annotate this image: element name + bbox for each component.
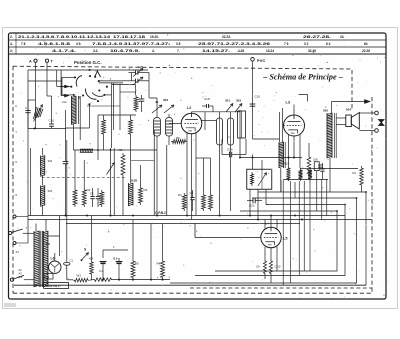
svg-text:.50: .50	[256, 265, 260, 269]
resistor R7	[90, 260, 94, 276]
tube L5	[261, 227, 281, 247]
svg-text:R3: R3	[144, 188, 148, 192]
resistor R8	[121, 153, 125, 177]
svg-text:.4.28: .4.28	[237, 49, 244, 53]
capacitor C15	[139, 98, 145, 100]
wire mid horizontals	[87, 105, 120, 107]
svg-text:S: S	[84, 248, 86, 252]
bus B plus	[28, 219, 372, 221]
svg-text:301: 301	[225, 99, 230, 103]
resistor R18	[299, 168, 303, 181]
wire top bus	[28, 69, 148, 71]
svg-text:C: C	[25, 106, 27, 110]
main bottom bus	[14, 284, 366, 286]
resistor R19	[308, 168, 312, 181]
svg-text:2.: 2.	[10, 35, 13, 39]
svg-text:L4: L4	[266, 222, 270, 226]
svg-text:318: 318	[313, 158, 318, 162]
resistor R5	[131, 259, 135, 280]
wire left rail	[27, 70, 29, 216]
svg-text:14.15.27.: 14.15.27.	[202, 49, 230, 53]
horizontal coil segment	[80, 148, 93, 150]
wire antenna loop	[28, 99, 35, 101]
phono terminal lower	[13, 242, 16, 245]
wire rotary right lower	[104, 94, 111, 96]
page edge shadow bottom-left	[4, 303, 16, 307]
wire rotary twin pair right	[99, 80, 123, 82]
svg-text:3.2.: 3.2.	[93, 49, 98, 53]
wire L2 grid	[169, 123, 181, 125]
wire grid row	[98, 114, 136, 116]
svg-text:C10: C10	[255, 95, 261, 99]
power transformer primary	[33, 231, 35, 287]
wire x65 column	[65, 110, 67, 161]
tuning coil L-B	[166, 118, 173, 137]
svg-text:4.1.7.4.: 4.1.7.4.	[52, 49, 76, 53]
scan speckles	[133, 70, 134, 71]
rotary band switch S1 wiper	[95, 71, 101, 77]
parts table grid	[9, 39, 387, 41]
wire IF box leads	[249, 189, 251, 215]
rotary switch arc section 1	[76, 76, 82, 87]
svg-text:– Schéma de Principe –: – Schéma de Principe –	[262, 73, 343, 82]
svg-text:302: 302	[48, 159, 53, 163]
capacitor 318	[314, 162, 319, 171]
terminal PVC	[251, 58, 255, 62]
nested loop B	[170, 198, 357, 283]
svg-text:505: 505	[323, 109, 328, 113]
wire coil leads	[156, 136, 158, 216]
svg-text:26.27.28.: 26.27.28.	[303, 35, 331, 39]
svg-text:C18: C18	[204, 97, 210, 101]
svg-text:22.26: 22.26	[362, 49, 370, 53]
bus AVC	[66, 223, 300, 225]
wire loop A left	[280, 180, 282, 192]
wire L5 cathode pins	[264, 247, 266, 259]
wire L5 grid riser	[194, 224, 196, 238]
svg-text:504: 504	[346, 108, 351, 112]
wire L5 heaters	[264, 220, 266, 229]
svg-text:303: 303	[236, 99, 241, 103]
IF transformer T2	[247, 169, 272, 189]
resistor R20 right column	[307, 155, 311, 176]
capacitor C13	[320, 168, 324, 170]
wire x130 drop	[130, 136, 132, 160]
svg-text:L5: L5	[283, 237, 287, 241]
capacitor C11	[318, 164, 323, 166]
svg-text:303: 303	[163, 98, 168, 102]
resistor R11	[134, 95, 138, 112]
antenna trimmer CAT	[34, 107, 37, 119]
resistor R17	[209, 193, 213, 211]
wire x103 drop	[103, 136, 105, 150]
svg-text:C.10: C.10	[275, 265, 281, 269]
svg-text:3-4: 3-4	[19, 275, 23, 279]
wire x59 drop	[59, 216, 61, 237]
wire L5 grid	[195, 237, 261, 239]
wire junction row under L3	[240, 157, 302, 159]
IF coil 310B	[128, 183, 130, 206]
output terminal upper	[375, 111, 379, 115]
chassis dashed border right	[371, 97, 373, 293]
svg-text:21.1.2.3.4.5.6.7.8.9.10.11.12.: 21.1.2.3.4.5.6.7.8.9.10.11.12.13.14	[18, 35, 110, 39]
power transformer secondary	[43, 231, 45, 287]
resistor R14	[73, 188, 77, 207]
mains terminal upper with switch	[9, 231, 12, 234]
svg-text:4.: 4.	[10, 42, 13, 46]
svg-text:L6: L6	[51, 257, 55, 261]
bus heater CPB2	[28, 215, 345, 217]
wire L2 pins	[186, 133, 188, 216]
svg-text:7.8.8.J.4.9.31.37.97.7.4.27.: 7.8.8.J.4.9.31.37.97.7.4.27.	[92, 42, 170, 46]
wire cap bus	[102, 250, 104, 258]
svg-text:R8: R8	[119, 148, 123, 152]
trimmer capacitor C17b	[135, 79, 137, 83]
svg-text:A3: A3	[19, 272, 23, 276]
svg-text:13.24: 13.24	[266, 49, 274, 53]
svg-text:64: 64	[364, 42, 368, 46]
inner dashed line bottom right	[190, 287, 372, 289]
coupling coil C16b	[228, 118, 234, 145]
resistor R16	[202, 193, 206, 211]
trimmer C19	[226, 104, 233, 113]
box C9a	[44, 274, 53, 280]
svg-text:17.16.17.18: 17.16.17.18	[113, 35, 145, 39]
tuning coil L-A	[154, 118, 161, 137]
resistor R22	[269, 259, 272, 276]
resistor R15	[100, 190, 104, 207]
wire x98 drop	[97, 115, 99, 160]
wire lamp top	[54, 253, 56, 261]
resistor R4	[161, 259, 165, 280]
svg-text:Rb: Rb	[176, 136, 180, 140]
wire x154 column	[153, 130, 155, 216]
wire lamp column	[66, 140, 68, 262]
jack bowtie symbol	[379, 120, 385, 126]
svg-text:24.: 24.	[340, 35, 345, 39]
svg-text:Position G.C.: Position G.C.	[74, 60, 102, 65]
rotary switch contact dots	[74, 76, 76, 78]
gang capacitor link dashed	[42, 177, 126, 179]
phono terminal upper	[13, 215, 16, 218]
resistor C9	[360, 166, 364, 187]
capacitor C6	[96, 196, 100, 198]
wire rotary left stubs	[62, 76, 75, 78]
wire bottom junction line	[113, 279, 170, 281]
svg-text:7.: 7.	[177, 49, 180, 53]
svg-text:C14: C14	[227, 148, 233, 152]
trimmer C20	[235, 104, 242, 113]
resistor 3ohm	[93, 278, 113, 282]
wire left column	[30, 148, 32, 216]
wire below-bus verticals	[91, 216, 93, 261]
svg-text:R10: R10	[284, 162, 290, 166]
svg-text:Cat: Cat	[62, 100, 67, 104]
mains terminal lower with switch	[10, 278, 13, 281]
svg-text:7 8: 7 8	[21, 42, 26, 46]
capacitor on PVC line	[250, 103, 256, 105]
svg-text:A: A	[29, 59, 32, 63]
svg-text:C.P.B.2: C.P.B.2	[155, 211, 166, 215]
rect around lamp block	[48, 236, 60, 256]
nested loop C	[195, 205, 345, 276]
resistor R12	[102, 118, 106, 136]
wire top right with arrow	[332, 101, 371, 103]
wire trimmer loop	[131, 73, 133, 81]
svg-text:4.: 4.	[152, 49, 155, 53]
wire x114 column	[113, 148, 115, 216]
wire x151 upper	[150, 224, 152, 231]
svg-text:10.4.79.9.: 10.4.79.9.	[110, 49, 140, 53]
wire PVC drop C10	[252, 61, 254, 139]
nested loop D	[215, 211, 337, 271]
wire arrows into antenna coil	[56, 70, 58, 87]
capacitor C5	[90, 196, 94, 198]
resistor W1	[73, 278, 90, 282]
wire L3 pins	[288, 135, 290, 167]
wire x166 column	[166, 145, 168, 216]
outer solid border	[9, 33, 387, 299]
wire verticals top mid	[245, 139, 247, 155]
resistor R10	[287, 166, 291, 181]
nested loop A	[258, 192, 366, 285]
power transformer core	[40, 231, 42, 287]
terminal T	[45, 59, 48, 62]
resistor R21	[263, 259, 266, 276]
svg-text:2V 110 130 L7: 2V 110 130 L7	[45, 285, 62, 288]
svg-text:C9: C9	[352, 171, 356, 175]
wire W1 line	[67, 279, 73, 281]
rotary switch arc section 3	[92, 93, 104, 97]
trimmer capacitor C17a	[135, 70, 137, 74]
coil 302	[40, 156, 42, 176]
wire C10 to osc coil	[253, 138, 280, 140]
svg-text:R5: R5	[135, 262, 139, 266]
wire coil bottoms row	[74, 149, 158, 151]
oscillator coil 318a	[278, 142, 280, 168]
wire osc coil leads	[279, 112, 281, 142]
wire L2 top cap to right	[192, 111, 241, 113]
svg-text:310B: 310B	[131, 179, 138, 183]
svg-text:6 4: 6 4	[326, 42, 331, 46]
chassis dashed border top	[13, 66, 352, 110]
wire rotary left branch	[28, 80, 62, 82]
svg-text:4 9.: 4 9.	[76, 42, 81, 46]
wire right cluster top	[283, 179, 328, 181]
svg-text:C22: C22	[249, 204, 255, 208]
rotary switch arc section 2	[85, 89, 96, 100]
wire L3 pin to right cluster	[300, 168, 312, 170]
svg-text:4J: 4J	[16, 250, 20, 254]
wire coil drops	[219, 145, 221, 216]
coil 304	[40, 186, 42, 206]
wire mid row 160	[131, 160, 155, 162]
svg-text:A2: A2	[19, 268, 23, 272]
chassis dashed border bottom	[13, 292, 372, 294]
wire L1 plate row	[202, 120, 217, 122]
wire verticals mid right	[282, 180, 284, 285]
svg-text:22.23.: 22.23.	[222, 35, 231, 39]
wire rotary bottom branch	[88, 104, 90, 128]
wire twin verticals	[111, 83, 113, 148]
resistor R6	[171, 140, 187, 144]
voltage selector panel	[44, 283, 69, 289]
capacitor C3	[63, 161, 69, 163]
wire trimmer col to coils	[150, 97, 158, 99]
svg-text:W1: W1	[77, 274, 82, 278]
svg-text:8.0: 8.0	[114, 257, 118, 261]
resistor R3	[139, 186, 143, 205]
svg-text:3 2: 3 2	[304, 42, 309, 46]
wire y168 right	[312, 168, 358, 170]
wire vertical x120	[119, 84, 121, 130]
resistor R2	[82, 188, 86, 207]
svg-text:C9a: C9a	[45, 276, 50, 279]
coupling coil C16a	[217, 118, 223, 145]
wire L3 grid	[284, 125, 286, 127]
svg-text:25.97.71.2.27.2.3.4.5.26: 25.97.71.2.27.2.3.4.5.26	[198, 42, 270, 46]
svg-text:C5: C5	[90, 192, 94, 196]
svg-text:C2: C2	[190, 191, 194, 195]
resistor R13	[129, 118, 133, 136]
capacitor C18 body	[206, 104, 208, 108]
variable capacitor CV1	[110, 148, 112, 216]
output terminal lower	[375, 129, 379, 133]
svg-text:L2: L2	[187, 106, 191, 110]
svg-text:PVC: PVC	[257, 58, 265, 63]
svg-text:C1: C1	[70, 259, 74, 263]
svg-text:2 5: 2 5	[46, 242, 51, 246]
svg-text:L3: L3	[286, 101, 290, 105]
wire top right corner stub	[299, 95, 308, 102]
capacitor C16 loop	[238, 111, 246, 138]
chassis dashed border left	[12, 66, 14, 293]
svg-text:19.20.: 19.20.	[150, 35, 159, 39]
svg-text:7 9: 7 9	[284, 42, 289, 46]
svg-text:2:: 2:	[10, 49, 13, 53]
resistor R1	[182, 193, 186, 211]
svg-text:3 8: 3 8	[176, 42, 181, 46]
wire coil bottom	[73, 124, 75, 150]
svg-text:32.36: 32.36	[308, 49, 316, 53]
antenna coil T1	[71, 96, 73, 124]
wire transformer tops	[35, 224, 37, 232]
capacitor on T lead	[49, 123, 54, 125]
